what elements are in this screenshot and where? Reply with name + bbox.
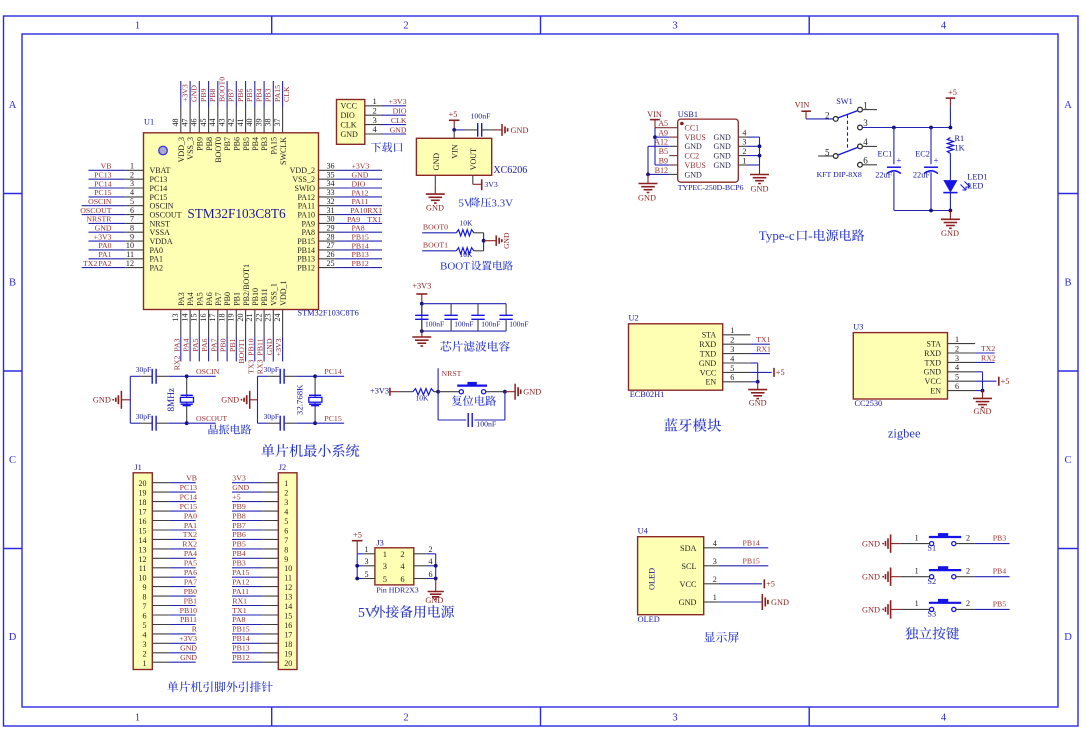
svg-text:GND: GND [180, 644, 197, 653]
svg-text:41: 41 [236, 118, 245, 126]
svg-text:PC14: PC14 [324, 367, 341, 376]
svg-text:2: 2 [143, 649, 147, 658]
svg-text:J2: J2 [279, 463, 286, 472]
svg-text:S3: S3 [927, 610, 936, 619]
svg-text:3: 3 [130, 179, 134, 188]
svg-text:35: 35 [327, 170, 335, 179]
svg-text:+5: +5 [948, 88, 957, 97]
svg-text:GND: GND [749, 398, 767, 407]
svg-text:1: 1 [742, 156, 746, 165]
svg-text:PA15: PA15 [270, 137, 279, 155]
svg-text:PC13: PC13 [94, 171, 111, 180]
svg-text:GND: GND [685, 170, 703, 179]
svg-text:1: 1 [915, 533, 919, 542]
svg-text:PB13: PB13 [297, 255, 315, 264]
svg-text:BOOT0: BOOT0 [423, 223, 448, 232]
svg-text:1: 1 [364, 545, 368, 554]
svg-text:13: 13 [139, 545, 147, 554]
svg-text:PA0: PA0 [184, 511, 197, 520]
svg-text:RXD: RXD [924, 349, 941, 358]
svg-text:12: 12 [126, 259, 134, 268]
svg-text:PB9: PB9 [199, 88, 208, 102]
svg-text:PA15: PA15 [232, 568, 249, 577]
svg-text:PB4: PB4 [993, 567, 1007, 576]
svg-text:PB1: PB1 [228, 338, 237, 352]
svg-text:EC2: EC2 [915, 149, 930, 158]
svg-text:PB5: PB5 [245, 88, 254, 102]
svg-text:GND: GND [523, 388, 541, 397]
svg-text:KFT DIP-8X8: KFT DIP-8X8 [817, 170, 862, 179]
svg-text:VDD_3: VDD_3 [177, 137, 186, 162]
svg-text:TX3 PB10: TX3 PB10 [246, 338, 255, 374]
svg-text:PA15: PA15 [273, 85, 282, 102]
svg-text:LED1: LED1 [967, 172, 987, 181]
svg-text:2: 2 [966, 599, 970, 608]
svg-text:2: 2 [130, 170, 134, 179]
svg-text:18: 18 [139, 498, 147, 507]
svg-text:PB4: PB4 [232, 549, 246, 558]
svg-text:PA5: PA5 [196, 292, 205, 306]
svg-text:GND: GND [941, 229, 959, 238]
svg-text:100nF: 100nF [509, 320, 528, 329]
svg-text:17: 17 [139, 508, 147, 517]
svg-text:4: 4 [863, 137, 868, 147]
svg-text:37: 37 [273, 118, 282, 126]
svg-text:PA6: PA6 [200, 338, 209, 351]
svg-text:PB8: PB8 [232, 511, 246, 520]
svg-text:VIN: VIN [647, 110, 662, 119]
svg-text:OSCOUT: OSCOUT [80, 206, 111, 215]
svg-text:19: 19 [227, 314, 236, 322]
svg-text:1: 1 [135, 713, 140, 724]
svg-text:TX2: TX2 [981, 344, 995, 353]
svg-text:38: 38 [264, 118, 273, 126]
svg-text:14: 14 [181, 314, 190, 322]
svg-text:VCC: VCC [680, 580, 697, 589]
svg-text:2: 2 [742, 147, 746, 156]
svg-text:6: 6 [730, 373, 734, 382]
svg-text:J3: J3 [376, 538, 383, 547]
svg-text:GND: GND [862, 540, 880, 549]
svg-text:32: 32 [327, 197, 335, 206]
svg-text:+5: +5 [776, 368, 785, 377]
svg-text:SWIO: SWIO [295, 184, 316, 193]
svg-text:VDD_1: VDD_1 [279, 280, 288, 305]
svg-text:R: R [192, 625, 198, 634]
svg-text:GND: GND [432, 153, 441, 171]
svg-text:PA12: PA12 [232, 577, 249, 586]
svg-text:14: 14 [284, 602, 292, 611]
svg-text:RX2 PA3: RX2 PA3 [172, 338, 181, 370]
svg-text:GND: GND [699, 359, 717, 368]
svg-text:2: 2 [955, 344, 959, 353]
svg-text:4: 4 [400, 561, 405, 571]
svg-text:PB14: PB14 [743, 539, 760, 548]
svg-text:PB6: PB6 [232, 530, 246, 539]
svg-text:PB15: PB15 [232, 625, 249, 634]
svg-text:PB1: PB1 [233, 292, 242, 306]
svg-text:PA1: PA1 [150, 255, 164, 264]
svg-text:3: 3 [730, 345, 734, 354]
svg-text:25: 25 [327, 259, 335, 268]
svg-text:PA6: PA6 [184, 568, 197, 577]
svg-text:D: D [9, 632, 17, 643]
svg-text:PB7: PB7 [223, 137, 232, 151]
svg-text:PA0: PA0 [150, 246, 164, 255]
svg-text:2: 2 [966, 533, 970, 542]
svg-text:100nF: 100nF [471, 112, 492, 121]
svg-text:6: 6 [955, 382, 959, 391]
svg-text:STA: STA [927, 340, 942, 349]
svg-text:7: 7 [130, 215, 134, 224]
svg-text:4: 4 [713, 539, 717, 548]
svg-text:3V3: 3V3 [484, 180, 498, 189]
svg-text:A: A [1064, 100, 1072, 111]
svg-text:3: 3 [143, 640, 147, 649]
svg-text:+3V3: +3V3 [274, 338, 283, 356]
svg-text:13: 13 [284, 593, 292, 602]
svg-text:NRST: NRST [150, 219, 171, 228]
svg-text:+3V3: +3V3 [180, 84, 189, 102]
svg-text:PA0: PA0 [98, 241, 111, 250]
svg-text:NRSTR: NRSTR [86, 215, 112, 224]
svg-text:22uF: 22uF [875, 171, 892, 180]
svg-text:PC15: PC15 [180, 502, 197, 511]
svg-text:4: 4 [130, 188, 134, 197]
svg-text:DIO: DIO [352, 179, 366, 188]
svg-text:PA11: PA11 [232, 587, 249, 596]
svg-text:TX1: TX1 [232, 606, 246, 615]
svg-text:4: 4 [373, 124, 378, 134]
svg-text:3: 3 [713, 557, 717, 566]
svg-text:PA4: PA4 [186, 292, 195, 306]
svg-text:3: 3 [364, 557, 368, 566]
svg-text:4: 4 [941, 21, 947, 32]
svg-text:S1: S1 [927, 544, 936, 553]
svg-text:PA12: PA12 [352, 188, 369, 197]
svg-text:1: 1 [915, 566, 919, 575]
svg-text:100nF: 100nF [481, 320, 500, 329]
svg-text:+5: +5 [449, 110, 458, 119]
svg-text:22uF: 22uF [913, 171, 930, 180]
svg-text:1: 1 [143, 659, 147, 668]
svg-text:3: 3 [742, 138, 746, 147]
svg-text:TX2: TX2 [183, 530, 197, 539]
svg-text:VOUT: VOUT [469, 148, 478, 170]
svg-text:GND: GND [190, 85, 199, 102]
svg-text:20: 20 [139, 479, 147, 488]
svg-text:17: 17 [208, 314, 217, 322]
svg-text:PC15: PC15 [324, 414, 341, 423]
svg-text:16: 16 [139, 517, 147, 526]
svg-text:VBUS: VBUS [685, 161, 706, 170]
svg-text:1: 1 [863, 100, 868, 110]
svg-text:VBAT: VBAT [150, 166, 171, 175]
svg-text:3: 3 [863, 118, 868, 128]
svg-text:+5: +5 [1001, 377, 1010, 386]
svg-text:EN: EN [706, 378, 717, 387]
svg-text:BOOT0: BOOT0 [214, 137, 223, 163]
svg-text:23: 23 [264, 314, 273, 322]
svg-text:PB3: PB3 [993, 534, 1007, 543]
svg-text:GND: GND [232, 483, 249, 492]
svg-text:PB10: PB10 [251, 288, 260, 306]
svg-text:U4: U4 [638, 527, 649, 536]
svg-text:PB11: PB11 [260, 288, 269, 306]
svg-text:VSSA: VSSA [150, 228, 171, 237]
svg-text:2: 2 [284, 489, 288, 498]
svg-text:1: 1 [730, 326, 734, 335]
svg-text:EC1: EC1 [878, 149, 893, 158]
svg-text:3: 3 [672, 713, 677, 724]
svg-text:22: 22 [254, 314, 263, 322]
svg-text:PB8: PB8 [205, 137, 214, 151]
svg-text:1: 1 [130, 162, 134, 171]
svg-text:1: 1 [713, 593, 717, 602]
svg-text:PA1: PA1 [98, 250, 111, 259]
svg-text:GND: GND [862, 573, 880, 582]
svg-text:PB9: PB9 [196, 137, 205, 151]
svg-text:GND: GND [425, 596, 443, 605]
svg-text:PA5: PA5 [184, 559, 197, 568]
svg-text:PB0: PB0 [184, 587, 198, 596]
svg-text:VB: VB [186, 474, 197, 483]
svg-text:PB3: PB3 [232, 559, 246, 568]
svg-text:+5: +5 [353, 530, 362, 539]
svg-text:30pF: 30pF [136, 412, 151, 421]
svg-text:BOOT0: BOOT0 [217, 77, 226, 102]
svg-text:30pF: 30pF [264, 365, 279, 374]
svg-text:100nF: 100nF [476, 420, 497, 429]
svg-text:18: 18 [284, 640, 292, 649]
svg-text:4: 4 [284, 508, 288, 517]
svg-text:PB8: PB8 [208, 88, 217, 102]
svg-text:NRST: NRST [442, 369, 462, 378]
svg-text:+3V3: +3V3 [412, 281, 431, 290]
svg-text:10: 10 [126, 241, 134, 250]
svg-text:10K: 10K [460, 218, 474, 227]
svg-text:TX1: TX1 [756, 335, 770, 344]
svg-text:LED: LED [967, 181, 983, 190]
svg-text:B5: B5 [659, 147, 668, 156]
svg-text:PA7: PA7 [209, 338, 218, 351]
svg-text:VDD_2: VDD_2 [290, 166, 315, 175]
svg-text:PA11: PA11 [298, 202, 315, 211]
svg-text:PA11: PA11 [352, 197, 369, 206]
svg-text:45: 45 [199, 118, 208, 126]
svg-text:RXD: RXD [699, 340, 716, 349]
svg-text:7: 7 [143, 602, 147, 611]
svg-text:OSCIN: OSCIN [150, 202, 174, 211]
svg-text:CC2: CC2 [685, 152, 700, 161]
svg-text:GND: GND [714, 142, 732, 151]
svg-text:CC1: CC1 [685, 124, 700, 133]
svg-text:+3V3: +3V3 [389, 97, 407, 106]
svg-text:STA: STA [702, 331, 717, 340]
svg-text:PB3: PB3 [264, 88, 273, 102]
svg-text:GND: GND [924, 368, 942, 377]
svg-text:S2: S2 [927, 577, 936, 586]
svg-text:15: 15 [139, 527, 147, 536]
svg-text:1: 1 [135, 21, 140, 32]
svg-text:R1: R1 [955, 134, 965, 143]
svg-text:12: 12 [139, 555, 147, 564]
svg-text:VIN: VIN [450, 144, 459, 158]
svg-text:GND: GND [180, 653, 197, 662]
svg-text:10K: 10K [416, 394, 430, 403]
svg-text:GND: GND [341, 130, 359, 139]
svg-text:8: 8 [143, 593, 147, 602]
svg-text:3: 3 [955, 354, 959, 363]
svg-text:-: - [808, 228, 812, 243]
svg-text:CLK: CLK [341, 121, 357, 130]
svg-text:PB9: PB9 [232, 502, 246, 511]
svg-text:DIO: DIO [341, 111, 355, 120]
svg-text:28: 28 [327, 232, 335, 241]
svg-text:3: 3 [284, 498, 288, 507]
svg-text:GND: GND [679, 598, 697, 607]
svg-text:GND: GND [638, 194, 656, 203]
svg-text:PA7: PA7 [184, 577, 197, 586]
svg-text:31: 31 [327, 206, 335, 215]
svg-text:4: 4 [742, 129, 746, 138]
svg-text:zigbee: zigbee [888, 427, 921, 441]
svg-text:PA3: PA3 [177, 292, 186, 306]
svg-text:8: 8 [284, 545, 288, 554]
svg-text:5: 5 [364, 570, 368, 579]
svg-text:B: B [1064, 278, 1071, 289]
svg-text:PA4: PA4 [184, 549, 197, 558]
svg-text:8: 8 [130, 223, 134, 232]
svg-text:10K: 10K [460, 250, 474, 259]
svg-text:17: 17 [284, 630, 292, 639]
svg-text:9: 9 [284, 555, 288, 564]
svg-text:PB0: PB0 [223, 292, 232, 306]
svg-text:PA2: PA2 [98, 259, 111, 268]
svg-text:A9: A9 [658, 129, 668, 138]
svg-text:20: 20 [236, 314, 245, 322]
svg-text:PA8: PA8 [352, 224, 365, 233]
svg-text:47: 47 [181, 118, 190, 126]
svg-text:5: 5 [284, 517, 288, 526]
svg-text:SDA: SDA [680, 544, 697, 553]
svg-text:SW1: SW1 [836, 97, 853, 106]
svg-text:A: A [9, 100, 17, 111]
svg-text:2: 2 [429, 545, 433, 554]
svg-text:6: 6 [284, 527, 288, 536]
svg-text:100nF: 100nF [425, 320, 444, 329]
svg-text:VSS_2: VSS_2 [292, 175, 315, 184]
svg-text:OSCOUT: OSCOUT [150, 211, 182, 220]
svg-text:GND: GND [426, 204, 444, 213]
svg-text:PB10: PB10 [180, 606, 197, 615]
svg-text:PA12: PA12 [298, 193, 316, 202]
svg-text:5: 5 [143, 621, 147, 630]
svg-text:GND: GND [714, 152, 732, 161]
svg-text:3: 3 [383, 561, 387, 571]
svg-text:PA7: PA7 [214, 292, 223, 306]
svg-text:5: 5 [130, 197, 134, 206]
svg-text:ECB02H1: ECB02H1 [630, 390, 665, 399]
svg-text:PB15: PB15 [352, 233, 369, 242]
svg-text:9: 9 [130, 232, 134, 241]
svg-text:STM32F103C8T6: STM32F103C8T6 [298, 309, 359, 318]
svg-text:VSS_1: VSS_1 [270, 283, 279, 306]
svg-text:PB7: PB7 [232, 521, 246, 530]
svg-text:PA5: PA5 [191, 338, 200, 351]
svg-text:C: C [1064, 455, 1071, 466]
svg-text:RX1: RX1 [232, 596, 247, 605]
svg-text:BOOT1: BOOT1 [423, 241, 448, 250]
svg-text:RX2: RX2 [981, 353, 996, 362]
svg-text:15: 15 [284, 612, 292, 621]
svg-text:8MHz: 8MHz [166, 388, 176, 411]
svg-text:10: 10 [284, 564, 292, 573]
svg-text:VCC: VCC [925, 377, 941, 386]
svg-text:PA1: PA1 [184, 521, 197, 530]
svg-text:4: 4 [955, 363, 959, 372]
svg-text:3V3: 3V3 [232, 474, 246, 483]
svg-text:STM32F103C8T6: STM32F103C8T6 [187, 206, 286, 221]
svg-text:OSCOUT: OSCOUT [196, 414, 227, 423]
svg-text:PC14: PC14 [94, 179, 111, 188]
svg-text:TXD: TXD [925, 358, 942, 367]
svg-text:2: 2 [966, 566, 970, 575]
svg-text:RX2: RX2 [182, 540, 197, 549]
svg-text:11: 11 [139, 564, 147, 573]
svg-text:9: 9 [143, 583, 147, 592]
svg-text:VBUS: VBUS [685, 133, 706, 142]
svg-text:Type-c: Type-c [759, 228, 795, 243]
svg-text:36: 36 [327, 162, 335, 171]
svg-text:TX2: TX2 [83, 259, 97, 268]
svg-text:USB1: USB1 [678, 110, 698, 119]
svg-text:2: 2 [730, 336, 734, 345]
svg-text:33: 33 [327, 188, 335, 197]
svg-text:PA9: PA9 [347, 215, 360, 224]
svg-text:34: 34 [327, 179, 335, 188]
svg-text:CC2530: CC2530 [855, 399, 883, 408]
svg-text:PB12: PB12 [352, 259, 369, 268]
svg-text:2: 2 [403, 21, 408, 32]
svg-text:3.3V: 3.3V [491, 198, 513, 210]
svg-text:42: 42 [227, 118, 236, 126]
svg-text:1: 1 [955, 335, 959, 344]
svg-text:OSCIN: OSCIN [88, 197, 112, 206]
svg-text:PA9: PA9 [302, 219, 316, 228]
svg-text:7: 7 [284, 536, 288, 545]
svg-text:PC15: PC15 [94, 188, 111, 197]
svg-text:CLK: CLK [391, 116, 407, 125]
svg-text:VIN: VIN [795, 101, 810, 110]
svg-text:+5: +5 [232, 492, 240, 501]
svg-text:6: 6 [400, 574, 404, 584]
svg-text:VCC: VCC [341, 102, 357, 111]
svg-text:40: 40 [245, 118, 254, 126]
svg-text:6: 6 [143, 612, 147, 621]
svg-text:27: 27 [327, 241, 335, 250]
svg-text:20: 20 [284, 659, 292, 668]
svg-text:29: 29 [327, 223, 335, 232]
svg-text:GND: GND [974, 407, 992, 416]
svg-text:11: 11 [126, 250, 134, 259]
svg-text:5: 5 [955, 373, 959, 382]
svg-text:5V: 5V [458, 198, 472, 210]
svg-text:PB15: PB15 [297, 237, 315, 246]
svg-text:SWCLK: SWCLK [279, 137, 288, 165]
svg-text:PA8: PA8 [232, 615, 245, 624]
svg-text:OSCIN: OSCIN [196, 367, 220, 376]
